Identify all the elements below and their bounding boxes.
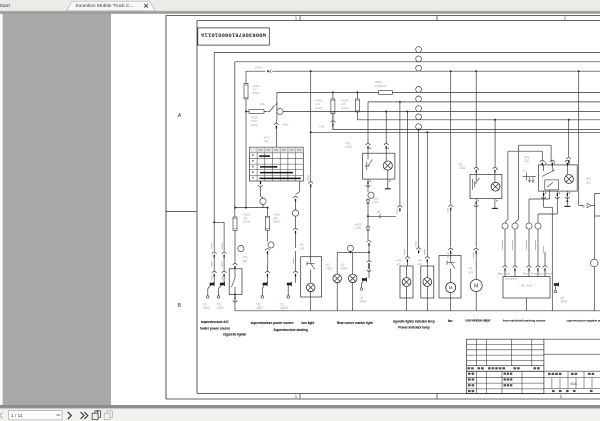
terminal plug AX4 bbox=[216, 282, 224, 310]
caption superstructure negative pole bbox=[566, 318, 600, 322]
title block right table bbox=[544, 339, 600, 388]
washer control box A2 bbox=[503, 277, 550, 311]
terminal AX9 bbox=[359, 251, 371, 303]
caption superstructure starting bbox=[273, 328, 307, 332]
caption rear corner marker light bbox=[337, 321, 374, 325]
cigarette lighter R5 bbox=[229, 246, 248, 295]
washer speed labels bbox=[498, 272, 553, 280]
fuse F5 inline bbox=[374, 80, 392, 94]
title block right marks bbox=[548, 373, 594, 392]
vertical wire stub bbox=[416, 129, 421, 254]
tab close x bbox=[144, 4, 148, 8]
svg-text:superstructure power source: superstructure power source bbox=[251, 321, 294, 325]
ground bus bbox=[235, 310, 600, 312]
svg-text:Low speed: Low speed bbox=[505, 278, 518, 281]
table output right pin bbox=[292, 181, 299, 248]
tabbar lower bands bbox=[0, 11, 600, 14]
S12 output diodes bbox=[355, 179, 397, 240]
breaker 10L bbox=[260, 102, 278, 111]
caption fan bbox=[448, 319, 453, 323]
washer pin top jogs bbox=[505, 219, 519, 222]
caption cigarette lighter bbox=[223, 333, 247, 337]
column number 2 bottom bbox=[560, 394, 563, 399]
fan unit bbox=[439, 256, 461, 311]
svg-text:Power indicator lamp: Power indicator lamp bbox=[398, 325, 429, 329]
marker light feed bbox=[337, 245, 369, 253]
svg-text:1 / 11: 1 / 11 bbox=[11, 413, 23, 419]
vertical wire to indicator lamp H6 bbox=[425, 131, 430, 266]
svg-text:Zoomlion Mobile Truck C...: Zoomlion Mobile Truck C... bbox=[76, 3, 134, 9]
page bottom shadow band bbox=[0, 405, 600, 408]
marker lamp H21 bbox=[325, 252, 341, 310]
pin number marks bbox=[369, 148, 570, 202]
toolbar snapshot icon bbox=[92, 410, 100, 420]
terminal plug AX10 bbox=[279, 251, 297, 310]
Start tab text bbox=[0, 3, 10, 9]
svg-text:superstructure A/C: superstructure A/C bbox=[201, 320, 230, 324]
title block header marks bbox=[468, 367, 540, 392]
fuse F1 bbox=[265, 208, 280, 283]
vertical wire to S10 bbox=[475, 70, 477, 167]
chevron top of AX9 wire bbox=[367, 241, 372, 253]
viewer gray background left of page bbox=[0, 14, 111, 406]
caption superstructure AC bbox=[201, 320, 230, 324]
label -X4202 bbox=[254, 65, 263, 69]
svg-text:Superstructure starting: Superstructure starting bbox=[273, 328, 307, 332]
svg-text:heater power source: heater power source bbox=[200, 326, 231, 330]
drawing number box (rotated text) bbox=[198, 28, 269, 45]
svg-text:60A: 60A bbox=[571, 382, 578, 386]
long wire to box light bbox=[308, 70, 314, 257]
wire B5 to S12 bbox=[366, 143, 371, 153]
rear wiper motor A3 bbox=[468, 267, 482, 311]
marker lamp H20 bbox=[340, 252, 357, 310]
switch table S1 grid bbox=[249, 147, 303, 181]
bus B5 bbox=[368, 102, 600, 143]
svg-text:Rear corner marker light: Rear corner marker light bbox=[337, 321, 374, 325]
toolbar background bbox=[0, 408, 600, 421]
svg-text:=S20-V16: =S20-V16 bbox=[372, 196, 379, 204]
column number 2 top bbox=[564, 16, 567, 21]
svg-text:A: A bbox=[178, 113, 182, 119]
box light E1 bbox=[300, 243, 322, 311]
left column wire 2 bbox=[222, 222, 227, 282]
svg-text:-X425: -X425 bbox=[318, 125, 325, 128]
svg-text:-X4202: -X4202 bbox=[254, 65, 263, 69]
S12 ground bbox=[385, 170, 391, 189]
S10 ground bbox=[492, 199, 498, 209]
left column wire 1 bbox=[212, 221, 224, 282]
svg-text:+P1-R5: +P1-R5 bbox=[242, 256, 248, 264]
vertical wire to S10 lamp bbox=[494, 119, 496, 167]
outer drawing frame bbox=[166, 16, 600, 400]
bus B2 bbox=[235, 62, 600, 217]
svg-text:M: M bbox=[474, 283, 478, 289]
fuse F4 bbox=[315, 91, 335, 129]
svg-text:Wash: Wash bbox=[546, 272, 553, 275]
terminal AX6 bbox=[554, 282, 567, 303]
fuse F2 bbox=[244, 71, 260, 111]
lighter ground drop bbox=[233, 294, 238, 311]
fuse F10 horizontal bbox=[245, 110, 268, 127]
svg-text:Cigarette lighter: Cigarette lighter bbox=[223, 333, 247, 337]
extra rotated wire labels bbox=[404, 241, 474, 258]
svg-text:M: M bbox=[449, 285, 453, 290]
indicator lamp H5 bbox=[396, 259, 413, 311]
S3 connector arrows bbox=[522, 171, 536, 183]
active document tab bbox=[67, 1, 156, 11]
rotated wire labels bbox=[211, 243, 294, 280]
toolbar last page arrows bbox=[81, 412, 88, 419]
caption heater power source bbox=[200, 326, 231, 330]
table header tint bbox=[249, 147, 303, 153]
title block left table bbox=[467, 339, 544, 393]
caption box light bbox=[301, 321, 315, 325]
vertical wire to indicator lamp H5 bbox=[405, 111, 410, 267]
svg-text:=K-A2: =K-A2 bbox=[519, 283, 532, 288]
inner drawing frame bbox=[197, 21, 600, 394]
indicator lamp H6 bbox=[417, 259, 434, 311]
svg-text:Power source: Power source bbox=[531, 272, 547, 275]
S10 outputs bbox=[474, 199, 479, 280]
svg-text:10L: 10L bbox=[260, 102, 265, 106]
svg-text:Reset: Reset bbox=[523, 272, 530, 275]
vertical wire to terminal bbox=[397, 101, 403, 214]
frame column ticks bbox=[300, 16, 437, 400]
toolbar prev arrow bbox=[0, 412, 3, 418]
caption cigarette lighter indicator lamp bbox=[393, 319, 435, 323]
S3 ground bbox=[564, 191, 570, 206]
caption superstructure power source bbox=[251, 321, 294, 325]
caption rear window wiper bbox=[465, 318, 491, 322]
terminal plug AX2 bbox=[256, 282, 267, 310]
switch S10 bbox=[459, 162, 502, 198]
row label A bbox=[178, 113, 182, 119]
page number box bbox=[9, 411, 63, 420]
vertical wire to S4 bbox=[578, 70, 583, 205]
switch table contact bars bbox=[259, 155, 301, 179]
column number 1 bottom bbox=[295, 394, 298, 399]
wire into switch table bbox=[276, 128, 278, 147]
svg-text:B: B bbox=[178, 303, 182, 309]
bus B3 with connector arrow bbox=[246, 70, 600, 73]
washer pin wires bbox=[503, 229, 548, 276]
switch S3 bbox=[524, 155, 578, 191]
bus B7 bbox=[357, 112, 600, 120]
svg-text:front windshield washing syste: front windshield washing system bbox=[503, 318, 546, 322]
bus B1 bbox=[214, 53, 600, 223]
svg-text:superstructure negative pole: superstructure negative pole bbox=[566, 318, 600, 322]
tab bar background bbox=[0, 0, 600, 11]
superstructure negative terminal bbox=[591, 216, 599, 311]
bus B6 bbox=[283, 111, 600, 113]
washer connector bubbles bbox=[502, 223, 541, 229]
terminal plug AX3 bbox=[203, 282, 215, 310]
connector bubbles column bbox=[416, 47, 422, 130]
row divider tick bbox=[166, 210, 197, 212]
connector circle X426 bbox=[274, 108, 289, 128]
svg-text:box light: box light bbox=[301, 321, 315, 325]
fuse F9 bbox=[233, 212, 250, 263]
svg-text:fan: fan bbox=[448, 319, 453, 323]
caption front windshield washing system bbox=[503, 318, 546, 322]
svg-text:=S20-V15: =S20-V15 bbox=[355, 223, 362, 231]
wire F2 column down bbox=[245, 112, 247, 208]
svg-text:-X5: -X5 bbox=[376, 211, 381, 214]
table header cell marks bbox=[252, 149, 302, 179]
S3 outputs bbox=[541, 191, 552, 311]
washer rotated labels bbox=[502, 240, 544, 253]
white pdf page bbox=[111, 14, 600, 405]
switch box S12 bbox=[345, 142, 395, 180]
toolbar clipboard icon disabled bbox=[104, 411, 112, 420]
caption power indicator lamp bbox=[398, 325, 429, 329]
routing wires to S3 bbox=[519, 145, 555, 219]
toolbar next arrow bbox=[68, 412, 72, 419]
column number 1 top bbox=[295, 16, 298, 21]
wire B6 to S12 bbox=[384, 111, 389, 154]
horn S4 bbox=[583, 177, 600, 216]
svg-text:W00630876100001011A: W00630876100001011A bbox=[200, 32, 265, 39]
svg-text:Start: Start bbox=[0, 3, 10, 9]
table output left pin bbox=[258, 181, 266, 207]
vertical wire to S3 lamp bbox=[566, 119, 571, 165]
svg-text:cigarette lighter indicator la: cigarette lighter indicator lamp bbox=[393, 319, 435, 323]
svg-text:High speed: High speed bbox=[498, 272, 511, 275]
svg-text:rear window wiper: rear window wiper bbox=[465, 318, 491, 322]
svg-text:-X426: -X426 bbox=[282, 123, 289, 127]
vertical wire to fan bbox=[448, 70, 454, 255]
bus B4 bbox=[277, 92, 600, 120]
bus B9 bbox=[311, 131, 600, 133]
local bus under table bbox=[234, 207, 268, 209]
fuse F3 bbox=[341, 91, 359, 112]
row label B bbox=[178, 303, 182, 309]
svg-text:N·B: N·B bbox=[522, 171, 526, 173]
bus B8 bbox=[333, 114, 600, 130]
switch S1 label bbox=[264, 136, 270, 144]
